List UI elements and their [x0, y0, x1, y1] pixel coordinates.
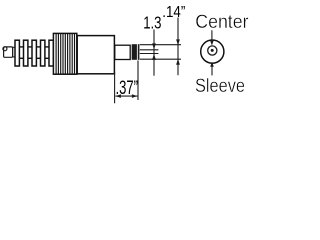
svg-text:.14”: .14”	[162, 4, 185, 21]
svg-text:1.3: 1.3	[143, 13, 161, 33]
svg-text:Sleeve: Sleeve	[195, 75, 245, 97]
svg-text:.37”: .37”	[116, 77, 139, 99]
svg-text:Center: Center	[195, 11, 249, 33]
